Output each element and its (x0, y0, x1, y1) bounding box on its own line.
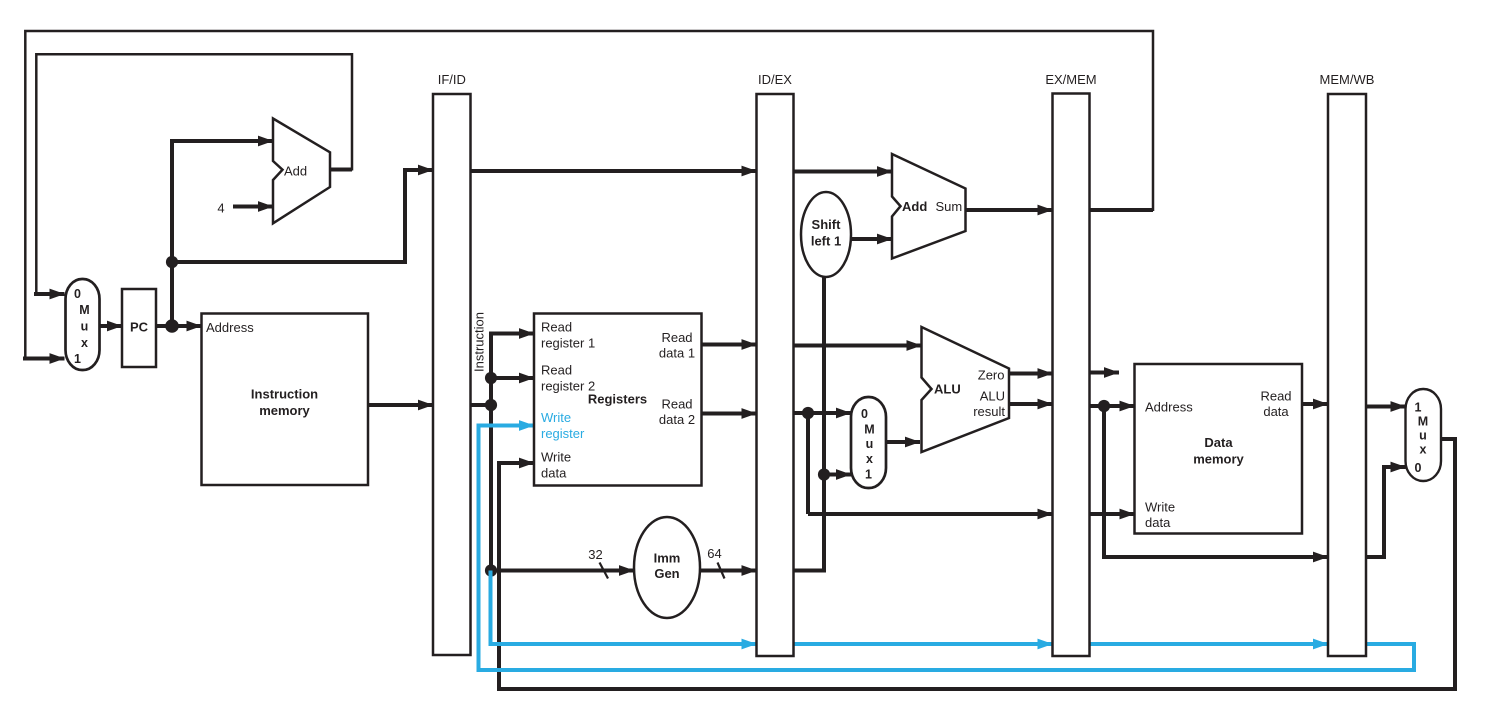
wire: Imm Gen output (64) to ID/EX (700, 569, 757, 573)
wire: MEM/WB ALU result to writeback mux input 0 (1366, 467, 1406, 557)
wire: constant 4 into Add (233, 205, 273, 209)
svg-text:Data: Data (1204, 435, 1233, 450)
svg-text:Gen: Gen (654, 566, 679, 581)
PC register (122, 289, 156, 367)
wire: instruction to Read register 2 (491, 376, 534, 380)
data memory (1135, 364, 1303, 534)
svg-text:x: x (1420, 443, 1427, 457)
svg-text:1: 1 (74, 352, 81, 366)
svg-text:M: M (864, 423, 874, 437)
wire: PC output to instruction memory Address (156, 324, 202, 328)
svg-text:EX/MEM: EX/MEM (1045, 72, 1096, 87)
mux M3 (writeback mux) (1406, 389, 1442, 481)
wire: ALU result from EX/MEM to data memory Address and to MEM/WB (1090, 404, 1135, 408)
svg-text:0: 0 (861, 407, 868, 421)
wire: branch target from EX/MEM wrap-around to PC mux input 1 (23, 31, 1153, 359)
svg-text:ALU: ALU (934, 382, 961, 397)
wire: Read data 1 to ID/EX (702, 343, 757, 347)
svg-text:Add: Add (902, 199, 927, 214)
svg-text:1: 1 (865, 468, 872, 482)
wire: Shift left 1 output to branch Add (851, 237, 892, 241)
Shift left 1 (801, 192, 851, 277)
pipeline register MEM/WB (1320, 72, 1375, 656)
wire: instruction to Read register 1 (489, 332, 534, 336)
ALU (922, 327, 1010, 452)
wire: PC+4 from Add wrap-around to PC mux input 0 (34, 54, 352, 294)
svg-text:Shift: Shift (812, 217, 842, 232)
svg-text:Add: Add (284, 164, 307, 179)
value slash 32 (600, 563, 609, 579)
wire: instruction (32) to Imm Gen (491, 569, 634, 573)
svg-text:1: 1 (1415, 401, 1422, 415)
mux M1 (PC source mux) (66, 279, 100, 370)
svg-text:M: M (79, 303, 89, 317)
svg-text:Instruction: Instruction (472, 312, 487, 372)
node: read data 2 junction (802, 407, 814, 419)
node: immediate to mux junction (818, 468, 830, 480)
wire: instruction bus from IF/ID (471, 403, 492, 407)
svg-text:ID/EX: ID/EX (758, 72, 792, 87)
wire: Zero flag out of EX/MEM (to branch control) (1090, 371, 1120, 375)
wire: ALU mux output to ALU (886, 440, 920, 444)
wire: write data from EX/MEM to data memory (1090, 512, 1135, 516)
instruction memory (202, 314, 369, 486)
svg-text:data: data (541, 466, 567, 481)
svg-text:u: u (1419, 429, 1427, 443)
svg-text:data: data (1263, 404, 1289, 419)
svg-text:x: x (866, 452, 873, 466)
svg-text:Read: Read (661, 397, 692, 412)
wire: immediate from ID/EX up to Shift left 1 and ALU mux input 1 (794, 277, 825, 571)
svg-text:Address: Address (206, 320, 254, 335)
svg-text:IF/ID: IF/ID (438, 72, 466, 87)
wire (blue): write register number EX/MEM to MEM/WB (1090, 642, 1329, 646)
svg-text:Imm: Imm (654, 551, 681, 566)
wire: PC value from ID/EX to branch Add (794, 170, 893, 174)
svg-text:Read: Read (541, 320, 572, 335)
svg-text:memory: memory (259, 403, 310, 418)
svg-text:0: 0 (74, 287, 81, 301)
pipeline register IF/ID (433, 72, 471, 655)
svg-text:Write: Write (541, 450, 571, 465)
svg-text:MEM/WB: MEM/WB (1320, 72, 1375, 87)
wire (blue): write register number from instruction to ID/EX (491, 571, 757, 645)
svg-text:Write: Write (541, 410, 571, 425)
wire: writeback mux output down and back to Registers Write data (499, 439, 1455, 689)
node: instruction immediate junction (485, 564, 497, 576)
svg-text:0: 0 (1415, 461, 1422, 475)
svg-text:32: 32 (588, 547, 602, 562)
svg-text:x: x (81, 336, 88, 350)
wire: PC value to IF/ID (172, 170, 433, 262)
svg-text:register 1: register 1 (541, 336, 595, 351)
svg-text:64: 64 (707, 546, 721, 561)
svg-text:register: register (541, 426, 585, 441)
svg-text:M: M (1418, 415, 1428, 429)
wire: Read data 1 from ID/EX to ALU (794, 344, 922, 348)
svg-text:4: 4 (217, 201, 224, 216)
svg-text:ALU: ALU (980, 389, 1005, 404)
wire: PC value up to Add input (172, 141, 273, 326)
svg-text:Read: Read (661, 330, 692, 345)
svg-text:memory: memory (1193, 452, 1244, 467)
svg-text:Address: Address (1145, 400, 1193, 415)
node: PC value branch junction (166, 256, 178, 268)
svg-text:u: u (81, 320, 89, 334)
pipeline register ID/EX (757, 72, 794, 656)
svg-text:Registers: Registers (588, 392, 647, 407)
svg-text:left 1: left 1 (811, 234, 841, 249)
wire (blue): write register number ID/EX to EX/MEM (794, 642, 1053, 646)
svg-text:u: u (866, 437, 874, 451)
svg-text:Write: Write (1145, 500, 1175, 515)
mux M2 (ALU operand mux) (851, 397, 886, 488)
wire: branch Add Sum to EX/MEM (966, 208, 1053, 212)
svg-text:Zero: Zero (978, 368, 1005, 383)
wire: MEM/WB read data to writeback mux input 1 (1366, 405, 1406, 409)
wire: instruction memory output to IF/ID (368, 403, 433, 407)
wire: data memory Read data to MEM/WB (1302, 402, 1328, 406)
wire: PC value from IF/ID to ID/EX (471, 169, 757, 173)
svg-text:result: result (973, 404, 1005, 419)
value slash 64 (718, 563, 725, 579)
adder Add (branch target) (892, 154, 966, 259)
wire: ALU Zero to EX/MEM (1009, 372, 1053, 376)
svg-text:data 1: data 1 (659, 346, 695, 361)
svg-text:Read: Read (1260, 389, 1291, 404)
wire: Read data 2 from ID/EX to ALU mux input 0 and down to EX/MEM write data (794, 411, 852, 415)
pipeline register EX/MEM (1045, 72, 1096, 656)
svg-text:PC: PC (130, 320, 149, 335)
node: ALU result junction (1098, 400, 1110, 412)
wire: Read data 2 to ID/EX (702, 412, 757, 416)
wire (blue): write register number from MEM/WB back to Registers Write register (479, 426, 1415, 671)
node: instruction bus junction (485, 399, 497, 411)
adder Add (PC+4) (273, 119, 330, 224)
Imm Gen (634, 517, 700, 618)
node: PC output junction (165, 319, 179, 333)
registers block (534, 314, 702, 486)
wire: ALU result to EX/MEM (1009, 402, 1053, 406)
svg-text:Sum: Sum (936, 199, 963, 214)
svg-text:Read: Read (541, 363, 572, 378)
wire: PC mux output to PC (99, 324, 122, 328)
node: instruction read register 2 junction (485, 372, 497, 384)
svg-text:data 2: data 2 (659, 412, 695, 427)
svg-text:data: data (1145, 515, 1171, 530)
svg-text:Instruction: Instruction (251, 387, 318, 402)
